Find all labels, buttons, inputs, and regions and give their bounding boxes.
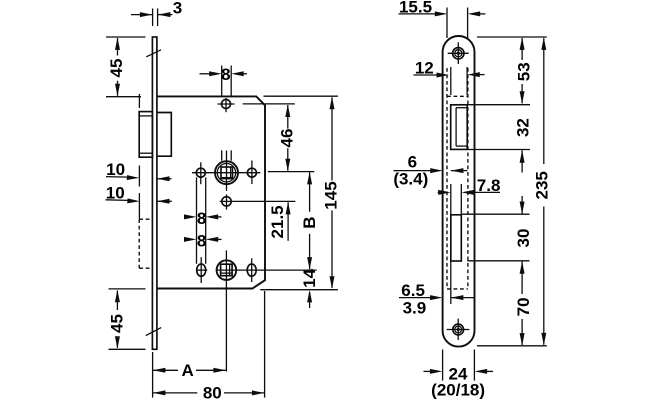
- svg-text:46: 46: [278, 129, 297, 148]
- svg-text:(20/18): (20/18): [431, 380, 485, 399]
- svg-text:70: 70: [514, 297, 533, 316]
- svg-text:14: 14: [300, 268, 319, 287]
- svg-text:8: 8: [197, 231, 206, 250]
- svg-text:21.5: 21.5: [268, 205, 287, 238]
- svg-text:45: 45: [107, 59, 126, 78]
- svg-text:80: 80: [203, 383, 222, 400]
- svg-text:8: 8: [197, 209, 206, 228]
- svg-text:(3.4): (3.4): [393, 170, 428, 189]
- svg-text:45: 45: [107, 314, 126, 333]
- svg-text:A: A: [181, 361, 193, 380]
- svg-text:3.9: 3.9: [403, 299, 427, 318]
- svg-text:53: 53: [514, 62, 533, 81]
- svg-text:32: 32: [513, 118, 532, 137]
- svg-text:145: 145: [322, 181, 341, 209]
- svg-text:8: 8: [221, 65, 230, 84]
- svg-text:B: B: [300, 216, 319, 228]
- svg-text:235: 235: [533, 171, 552, 199]
- svg-text:3: 3: [173, 0, 182, 18]
- svg-text:30: 30: [514, 229, 533, 248]
